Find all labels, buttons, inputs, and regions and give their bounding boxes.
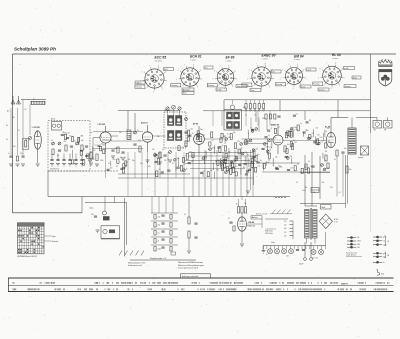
right band parts [305,160,329,170]
wire drop x30 [29,105,31,136]
svg-text:5n: 5n [266,254,268,256]
svg-text:6,3 V 0,3: 6,3 V 0,3 [312,258,318,260]
resistor R41 [184,214,190,224]
svg-text:ECC 85: ECC 85 [155,56,167,60]
svg-text:47p: 47p [275,156,278,158]
svg-text:KW: KW [357,247,360,249]
label ant values [7,109,26,119]
svg-text:110: 110 [284,221,286,223]
svg-text:500k: 500k [228,137,232,139]
svg-text:DM70 Skala: DM70 Skala [265,233,273,235]
wire stage couple 6 [283,140,326,142]
svg-text:9: 9 [165,71,166,73]
svg-text:2k: 2k [158,241,160,243]
speaker box [361,146,369,155]
socket caption extra 3 [250,89,261,92]
svg-text:70: 70 [254,115,256,117]
trimmer CT4 [134,130,139,134]
svg-text:gelb: gelb [383,253,386,255]
connector group C2 [373,256,386,259]
svg-text:1: 1 [273,78,274,80]
svg-text:Ant: Ant [7,110,10,113]
label V2 [141,123,148,125]
svg-text:UKW an: UKW an [136,82,142,84]
svg-text:10k: 10k [152,149,155,151]
svg-text:EM 84: EM 84 [294,54,304,58]
grounds V1b [89,156,125,167]
wire osc drop a [127,111,129,131]
svg-text:TA: TA [387,254,390,257]
svg-text:Heizung: Heizung [345,86,351,88]
wire to terminals [356,118,388,121]
wires V1b [93,136,118,160]
label L1 [33,98,35,101]
capacitor C8 [133,144,136,145]
svg-text:Skalenseil: Skalenseil [52,241,59,243]
svg-text:Erde: Erde [381,273,384,275]
svg-text:TA: TA [357,236,359,239]
notes text em84 [265,227,277,235]
tube socket V3 EF89 [212,56,237,91]
capacitor C30 [91,214,97,217]
svg-text:Fassung: Fassung [136,87,142,89]
svg-text:10k: 10k [191,161,194,163]
notes text left [128,262,146,268]
chassis bus line [48,196,290,198]
wire stage couple 2 [111,140,143,142]
component field right3 [257,144,293,171]
V1b extra parts [89,143,131,173]
svg-text:7: 7 [289,64,290,66]
wire drops to chassis 2 [128,178,184,197]
svg-text:50: 50 [172,163,174,165]
resistor row top2 [265,114,281,119]
wire drop x23 [22,100,24,156]
svg-text:grün: grün [383,236,386,239]
svg-text:v. unten: v. unten [190,58,196,61]
wire top risers mid [213,111,270,126]
svg-text:0,1: 0,1 [94,145,96,147]
svg-text:8n: 8n [222,145,224,147]
svg-text:1M: 1M [190,128,193,130]
svg-text:6,3: 6,3 [330,76,332,78]
svg-text:EABC 80: EABC 80 [262,54,276,58]
svg-text:8n: 8n [91,132,93,134]
socket leader label b [182,88,194,95]
svg-text:5: 5 [247,78,248,80]
svg-text:0,1: 0,1 [212,140,214,142]
terminal box TB1 [373,121,382,132]
svg-text:50: 50 [293,130,295,132]
svg-text:100: 100 [277,127,280,129]
socket caption extra 2 [216,88,227,91]
svg-text:40n: 40n [102,145,105,147]
wire tone drops [152,197,173,214]
svg-text:1M: 1M [67,132,70,134]
tube socket V4 EABC80 [247,54,275,92]
svg-text:100: 100 [286,256,289,258]
component field mid [188,128,261,179]
svg-text:50: 50 [158,233,160,235]
svg-text:6: 6 [320,69,321,71]
ground G4 [36,164,40,167]
svg-text:2k: 2k [208,149,210,151]
svg-text:Fassung: Fassung [276,84,282,86]
tone small box [171,252,176,255]
EM84 resistor trio [236,203,247,213]
svg-text:10k: 10k [319,137,322,139]
connector group A3 [347,243,360,246]
connector group A4 [347,246,360,249]
svg-text:0,1: 0,1 [184,214,186,216]
notes text block [178,261,204,269]
svg-text:200: 200 [330,187,333,189]
capacitor C6 [111,148,117,151]
svg-text:6: 6 [249,69,250,71]
svg-text:7: 7 [326,63,327,65]
svg-text:Widerstandswerte in Ohm: Widerstandswerte in Ohm [128,262,146,265]
svg-text:40n: 40n [110,167,113,169]
tone switch contacts [119,251,144,256]
svg-text:50: 50 [159,169,161,171]
dial lamp LP3 [282,249,287,254]
svg-text:EM84 Skala: EM84 Skala [265,231,273,233]
svg-text:ZF 460: ZF 460 [217,89,222,91]
svg-text:30p: 30p [233,132,236,134]
UKW extra parts [61,132,92,165]
left labels extra [6,125,27,148]
connector group C1 [373,252,386,255]
label switch [256,212,267,215]
socket leader label c [236,85,247,88]
svg-text:200: 200 [12,117,15,119]
label V6 [325,126,331,129]
wire stage couple 5 [242,138,274,140]
resistor R7 [96,154,98,161]
svg-text:Schirm g: Schirm g [319,89,325,91]
svg-text:7: 7 [184,64,185,66]
IF transformer T2 [224,100,247,130]
svg-text:TA: TA [374,129,377,132]
svg-text:Schaltplan 3089 Ph: Schaltplan 3089 Ph [14,46,56,51]
power transformer T4 [305,208,318,244]
chassis left riser [47,171,49,197]
svg-text:1k: 1k [296,113,298,115]
svg-text:500k: 500k [158,249,162,251]
svg-text:Fassung: Fassung [171,85,177,87]
svg-text:1: 1 [236,79,237,81]
svg-text:30p: 30p [200,129,203,131]
label rectifier [334,219,338,224]
dial lamp LP5 [311,250,316,255]
svg-text:2: 2 [162,88,163,90]
svg-text:ANTENNEN Bereich MW LW: ANTENNEN Bereich MW LW [18,255,38,258]
pot dark marks [96,211,120,239]
output transformer T3 [348,118,356,155]
svg-text:6: 6 [142,71,143,73]
svg-text:8n: 8n [6,125,8,127]
svg-text:2k: 2k [324,160,326,162]
svg-text:Klangfarbenregler n. 18: Klangfarbenregler n. 18 [150,257,166,260]
svg-text:Fassung: Fassung [313,84,319,86]
grid leader labels [44,236,59,243]
svg-text:5: 5 [176,79,177,81]
svg-text:350: 350 [20,153,23,155]
svg-text:500k: 500k [279,167,283,169]
svg-text:20: 20 [312,133,314,135]
tube V1b circle [100,126,111,152]
svg-text:1k: 1k [182,147,184,149]
svg-text:0,1: 0,1 [227,158,229,160]
component field mid2 [186,148,259,176]
wire top bus 2 [224,99,370,101]
svg-text:1k: 1k [293,140,295,142]
tube socket V6 EL84 [318,53,345,90]
svg-text:EF 89: EF 89 [226,56,235,60]
label V4 [271,124,279,127]
svg-text:47p: 47p [288,131,291,133]
dial lamp LP2 [275,249,280,254]
svg-text:LS: LS [387,241,389,243]
svg-text:8n: 8n [236,204,238,206]
svg-text:Anode: Anode [353,76,357,79]
tube V6 circle EL84 [326,132,335,147]
svg-text:25k: 25k [62,132,65,134]
mains plug [299,242,312,266]
IF transformer T1 [164,105,186,148]
svg-text:1M: 1M [309,120,312,122]
dial lamp LP4 [289,249,294,254]
svg-text:EM84+DM: EM84+DM [248,226,256,228]
ground lamp strip [262,246,266,254]
transformer caption box [321,205,332,210]
svg-text:EABC 80: EABC 80 [271,124,279,127]
wire y172.5 right [300,172,330,174]
svg-text:500k: 500k [293,127,297,129]
ground G1 [9,164,13,167]
svg-text:20: 20 [297,164,299,166]
bottom table row2 text [13,288,387,290]
svg-text:Leucht: Leucht [307,68,312,71]
ground mid 248 [246,191,250,194]
svg-text:2: 2 [339,85,340,87]
svg-text:70: 70 [227,134,229,136]
wire mid verticals [193,148,253,197]
svg-text:9: 9 [235,71,236,73]
extra labels band [62,132,178,142]
antenna coil L1 [31,101,45,104]
svg-text:5n: 5n [300,123,302,125]
svg-text:2: 2 [269,86,270,88]
svg-text:50: 50 [180,165,182,167]
svg-text:1M: 1M [210,170,213,172]
svg-text:1: 1 [305,78,306,80]
svg-text:Ferritantenne bei: Ferritantenne bei [346,251,358,254]
svg-text:25k: 25k [223,160,226,162]
socket caption extra 4 [306,68,316,71]
UKW bottom components [50,154,84,167]
svg-text:350: 350 [119,132,122,134]
svg-text:Lautst.: Lautst. [89,207,94,210]
wire UKW bottom dashed [48,170,118,172]
wire right drop 3 [319,156,321,199]
UKW coil box L2 [51,118,62,130]
svg-text:ZF Bandf. I: ZF Bandf. I [164,110,172,112]
svg-text:200: 200 [322,182,325,184]
svg-text:Schirm: Schirm [237,85,243,88]
label ant2 [8,153,23,155]
socket caption extra 5 [318,88,329,91]
svg-text:0,1: 0,1 [126,162,128,164]
resistor R50 [346,166,352,173]
svg-text:9: 9 [303,70,304,72]
svg-text:Zeiger: Zeiger [52,236,57,238]
svg-text:v. unten: v. unten [332,57,338,60]
wire top riser e [255,111,257,122]
svg-text:6,3: 6,3 [259,77,261,79]
svg-text:40n: 40n [344,148,347,150]
svg-text:3: 3 [293,88,294,90]
wire vertical pair right [346,155,348,208]
wire lamp bus [263,246,326,250]
right field2 [285,113,329,140]
resistor R9 [139,146,141,152]
svg-text:5: 5 [318,77,319,79]
tone control network [151,213,178,251]
resistor R42 [188,231,190,238]
UKW components [51,140,88,157]
svg-text:EL 84: EL 84 [332,53,341,57]
svg-text:UKW: UKW [357,241,361,243]
resistor row top [245,100,266,120]
svg-text:B 250: B 250 [334,219,338,221]
coil L3 [127,130,131,140]
label pot [89,207,94,210]
connector group A2 [347,240,361,243]
labels lower right band [296,182,341,194]
svg-text:220: 220 [284,232,287,234]
svg-text:25k: 25k [157,136,160,138]
svg-text:25k: 25k [203,135,206,137]
svg-text:0,1: 0,1 [228,218,230,220]
wire mid h3 [185,164,255,169]
label V1b [97,122,105,126]
bottom table lines [8,278,394,292]
wire y202.6 [85,202,127,204]
svg-text:Skala: Skala [271,242,275,244]
wire em84 right [247,219,262,228]
svg-text:200: 200 [290,168,293,170]
svg-text:6,3: 6,3 [223,77,225,79]
svg-text:6: 6 [178,70,179,72]
svg-text:TB: TB [384,130,386,132]
connector group B1 [373,236,386,239]
socket caption extra 1 [135,81,145,84]
svg-text:5k: 5k [270,141,272,143]
svg-text:1: 1 [202,79,203,81]
capacitor C1 [9,156,12,157]
right field [263,127,330,174]
svg-text:UKW Einheit: UKW Einheit [50,168,60,171]
svg-text:AT 20: AT 20 [51,118,55,121]
socket leader label e [300,85,311,88]
svg-text:50: 50 [116,166,118,168]
svg-text:7: 7 [256,64,257,66]
label EM84dm [248,226,256,228]
trimmer CT5 [182,118,188,150]
svg-text:5: 5 [140,80,141,82]
svg-text:50: 50 [308,161,310,163]
svg-text:40n: 40n [229,165,232,167]
wire switch area [265,198,288,220]
svg-text:1: 1 [166,80,167,82]
wire top riser d [304,111,306,120]
svg-text:125: 125 [284,225,287,227]
socket caption box V3 EF89 [207,84,217,88]
svg-text:70: 70 [247,155,249,157]
wire el84 drops [337,154,343,197]
svg-text:9: 9 [200,70,201,72]
trimmer CT0 [29,137,32,140]
svg-text:240: 240 [284,235,287,237]
grounds V2 [146,160,173,165]
socket leader label g [344,85,356,88]
tube V5 EM84 [238,217,247,231]
svg-text:200: 200 [244,152,247,154]
svg-text:1M: 1M [317,135,320,137]
wire bus y178a [118,177,253,179]
connector group A1 [347,236,359,239]
svg-text:50: 50 [83,148,85,150]
svg-text:EF 89: EF 89 [193,124,198,126]
svg-text:70: 70 [271,138,273,140]
wire right drop 1 [304,155,306,206]
label UKW [50,168,60,171]
svg-text:½ ECC85: ½ ECC85 [97,122,105,126]
resistor R2 box [23,139,29,150]
label lamp strip [271,242,318,260]
bus riser x82 [81,197,83,213]
svg-text:MW: MW [357,244,360,246]
wire bus y174 [118,173,190,175]
svg-text:7: 7 [220,65,221,67]
tube V2 circle ECH81 [142,125,152,152]
osc components [152,149,172,161]
wire vertical pair x125 [125,198,127,257]
tube V1a triode oval [34,131,41,149]
svg-text:500k: 500k [238,158,242,160]
notes boxed label [181,274,211,278]
svg-text:3: 3 [224,89,225,91]
svg-text:500k: 500k [100,160,104,162]
svg-text:Bel. 1: Bel. 1 [164,69,168,71]
svg-text:8n: 8n [260,160,262,162]
frame left border [12,54,14,213]
svg-text:8n: 8n [222,157,224,159]
svg-text:a. alle Geräte nur: a. alle Geräte nur [265,227,277,230]
wire top riser a [223,100,225,110]
label V3 [193,124,198,126]
svg-text:40n: 40n [268,160,271,162]
svg-text:100: 100 [257,166,260,168]
wire pot drop [105,197,114,212]
svg-text:1k: 1k [51,140,53,142]
svg-text:AT: AT [33,98,35,101]
wire y203.7 [300,203,346,205]
svg-text:br: br [383,261,385,264]
svg-text:9: 9 [272,69,273,71]
svg-text:Chassis gemessen bei 220 V: Chassis gemessen bei 220 V [178,267,199,269]
